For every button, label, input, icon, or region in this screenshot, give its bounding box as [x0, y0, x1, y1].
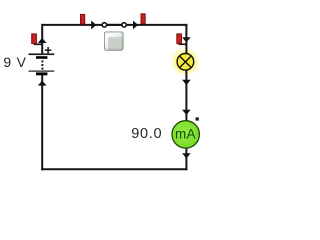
wire left lower: [41, 75, 43, 171]
current arrow down (below ammeter): [182, 153, 191, 158]
current arrow down (below lamp): [182, 80, 191, 85]
svg-text:mA: mA: [175, 127, 196, 142]
red marker (lamp): [177, 34, 187, 44]
wire right upper: [185, 24, 187, 55]
current arrow right (top wire, right of switch): [133, 21, 138, 30]
red marker (top wire left): [81, 14, 85, 24]
red marker (battery): [32, 34, 43, 44]
wire right lower: [185, 147, 187, 170]
battery B1: [29, 47, 55, 75]
ammeter M1: [172, 117, 199, 148]
wire top: [41, 24, 187, 26]
svg-text:90.0: 90.0: [131, 126, 162, 142]
svg-text:9 V: 9 V: [3, 54, 26, 70]
switch S1: [102, 23, 126, 27]
current arrow right (top wire, left of switch): [91, 21, 96, 30]
wire left upper: [41, 24, 43, 54]
wire right mid: [185, 69, 187, 122]
current arrow down (above ammeter): [182, 110, 191, 115]
red marker (top wire right): [141, 14, 145, 24]
wire bottom: [41, 168, 187, 170]
current arrow down (above lamp): [182, 37, 191, 42]
lamp L1: [177, 54, 194, 71]
current arrow up (below battery): [38, 80, 47, 85]
switch button: [104, 32, 124, 51]
current arrow up (above battery): [38, 38, 47, 43]
lamp glow: [170, 47, 201, 77]
